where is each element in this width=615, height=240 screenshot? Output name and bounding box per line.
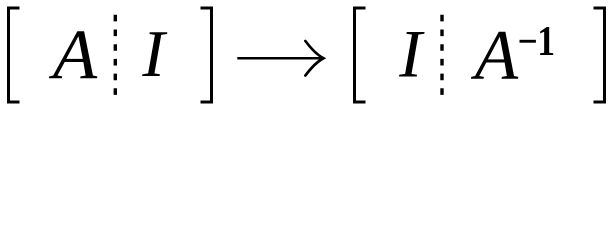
svg-text:A: A bbox=[49, 14, 98, 93]
dashed separator of first matrix bbox=[114, 15, 117, 95]
arrow shaft bbox=[237, 57, 321, 60]
left bracket of first matrix bbox=[7, 7, 20, 104]
right bracket of second matrix bbox=[594, 7, 607, 104]
matrix entry A bbox=[49, 14, 98, 93]
svg-text:1: 1 bbox=[537, 18, 555, 64]
superscript minus sign bbox=[520, 40, 536, 43]
right bracket of first matrix bbox=[201, 7, 214, 104]
svg-text:I: I bbox=[141, 17, 167, 91]
svg-text:A: A bbox=[471, 17, 519, 95]
svg-text:I: I bbox=[398, 16, 425, 92]
superscript digit 1 bbox=[537, 18, 555, 64]
left bracket of second matrix bbox=[353, 7, 366, 104]
dashed separator of second matrix bbox=[440, 15, 443, 95]
arrow head bbox=[305, 41, 323, 76]
